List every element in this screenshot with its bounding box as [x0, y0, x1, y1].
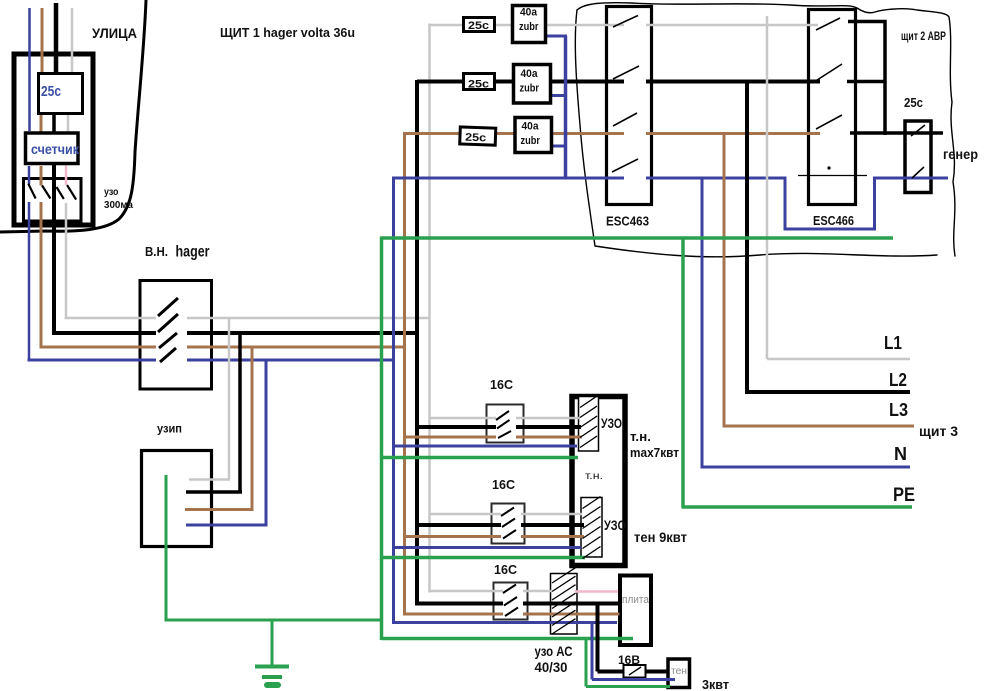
wire brown row2 — [405, 535, 585, 538]
wire blue row1 — [394, 445, 578, 448]
contact blade 16B — [629, 667, 641, 675]
wire brown bus vertical — [403, 132, 406, 616]
wire gray bus vertical — [428, 24, 431, 593]
svg-text:16В: 16В — [618, 653, 640, 667]
wire street pink segment — [65, 164, 68, 185]
breaker 25c top-1 box — [464, 18, 495, 32]
breaker 16C-1 box — [487, 405, 524, 443]
wire street boundary curve — [0, 0, 146, 232]
svg-text:16С: 16С — [490, 377, 514, 392]
wire PE green takeoff — [682, 238, 913, 507]
meter schetchik box — [26, 133, 79, 164]
wire black drop to 16B — [598, 604, 625, 672]
fuse 40a zubr 1 box — [513, 6, 546, 43]
svg-text:40/30: 40/30 — [535, 660, 568, 675]
wire black row3 — [417, 602, 620, 606]
wire black row VN — [52, 331, 419, 335]
wire gray row VN — [65, 317, 431, 320]
wire green inside UZIP — [165, 475, 168, 622]
wire green row3 — [382, 637, 634, 641]
wire brown row3 — [405, 613, 620, 616]
svg-text:плита: плита — [622, 594, 650, 606]
wire black 16B to ten — [645, 670, 669, 674]
svg-text:УЛИЦА: УЛИЦА — [92, 25, 137, 41]
wire thin black line at ESC466 bottom — [798, 175, 867, 177]
svg-text:счетчик: счетчик — [31, 142, 79, 157]
wire green row1 — [382, 456, 579, 460]
wire green UZIP to bus — [166, 619, 383, 622]
wire black bus vertical — [415, 80, 419, 606]
wire gray row3 — [430, 590, 553, 593]
svg-text:тен 9квт: тен 9квт — [634, 530, 687, 545]
contact blades VN hager — [158, 298, 178, 362]
load box ten 3kvt — [668, 659, 690, 688]
svg-text:УЗО: УЗО — [604, 518, 626, 533]
breaker 25c street box — [39, 74, 83, 114]
wire green PE bus vertical — [380, 237, 384, 641]
wire N blue takeoff — [701, 178, 911, 467]
svg-text:N: N — [894, 444, 907, 464]
wire gray drop to UZIP — [189, 318, 230, 480]
contact blades 16C-1 — [496, 411, 511, 438]
wire green ground drop — [271, 620, 274, 665]
wire green row2 — [382, 556, 586, 560]
breaker 25c generator box — [905, 121, 931, 193]
svg-text:3квт: 3квт — [702, 678, 729, 691]
wire L3 brown takeoff — [723, 134, 915, 427]
svg-text:узо АС: узо АС — [535, 644, 573, 659]
wire street black main drop — [54, 3, 56, 335]
wire brown row1 — [405, 436, 583, 439]
svg-text:16С: 16С — [492, 477, 516, 492]
wire black drop to UZIP — [186, 333, 242, 492]
wire black right bus vertical — [883, 20, 887, 135]
wire blue N bus vertical — [392, 177, 395, 625]
svg-text:узип: узип — [157, 422, 182, 436]
contact blades 16C-3 — [503, 585, 518, 617]
breaker blades uzo 300ma — [28, 184, 76, 200]
contact blades 25c generator — [911, 125, 925, 178]
svg-text:В.Н.: В.Н. — [145, 245, 168, 259]
wire blue drop to UZIP — [186, 360, 268, 525]
svg-text:zubr: zubr — [519, 21, 539, 33]
junction dot — [827, 166, 830, 169]
svg-text:25с: 25с — [468, 20, 489, 32]
wire gray top feed — [430, 24, 819, 27]
load box t.n. max7kvt / ten 9kvt — [572, 397, 625, 566]
surge protector UZIP box — [142, 451, 212, 547]
svg-text:ESC463: ESC463 — [606, 214, 649, 229]
wire shchit-2 boundary blob — [575, 3, 955, 257]
svg-text:ЩИТ 1 hager volta 36u: ЩИТ 1 hager volta 36u — [220, 25, 355, 40]
svg-text:генер: генер — [943, 146, 978, 162]
svg-text:max7квт: max7квт — [630, 445, 679, 460]
wire L1 gray takeoff — [767, 16, 910, 359]
svg-text:hager: hager — [176, 244, 210, 261]
wire black row2 — [417, 523, 584, 527]
contact blades ESC463 — [612, 16, 639, 173]
hatching uzo AC — [552, 568, 576, 634]
svg-text:ESC466: ESC466 — [813, 213, 854, 228]
switch VN hager box — [140, 281, 212, 390]
RCD UZO2 hatched body — [581, 498, 602, 558]
svg-text:щит 3: щит 3 — [919, 424, 959, 439]
wire street gray lower drop — [65, 203, 68, 319]
contactor ESC466 box — [809, 10, 856, 205]
svg-text:25с: 25с — [41, 84, 61, 100]
wire gray row2 — [430, 513, 583, 516]
svg-text:40a: 40a — [520, 7, 538, 19]
street panel enclosure box — [14, 54, 93, 225]
svg-text:25с: 25с — [468, 79, 489, 91]
svg-text:L3: L3 — [889, 400, 908, 420]
wire blue row3 — [394, 621, 618, 624]
label 25c top3 — [465, 132, 486, 145]
svg-text:L1: L1 — [884, 333, 902, 353]
RCD uzo 300ma street box — [24, 179, 82, 222]
svg-text:PE: PE — [893, 485, 915, 506]
contactor ESC463 box — [607, 7, 652, 205]
svg-text:40a: 40a — [522, 121, 540, 133]
ground symbol — [255, 667, 289, 686]
breaker 25c top-3 box — [460, 127, 496, 145]
load box plita — [620, 576, 651, 646]
hatching UZO2 — [583, 497, 601, 559]
contact blades 16C-2 — [501, 508, 516, 539]
svg-text:zubr: zubr — [520, 83, 540, 95]
svg-text:16С: 16С — [494, 562, 518, 577]
contact blades ESC466 — [814, 18, 842, 129]
wire blue collector from 40a breakers — [545, 36, 567, 178]
fuse 40a zubr 2 box — [514, 65, 551, 104]
breaker 16C-3 box — [494, 583, 528, 620]
wire street blue phase drop — [28, 8, 31, 362]
svg-text:25с: 25с — [465, 132, 486, 145]
wire black top feed — [417, 80, 887, 84]
svg-text:т.н.: т.н. — [630, 429, 651, 444]
RCD uzo AC 40/30 hatched body — [551, 574, 578, 635]
breaker 16C-2 box — [492, 504, 525, 544]
breaker 16B box — [624, 665, 646, 678]
wire black generator feed — [850, 131, 943, 135]
wire gray row1 — [430, 417, 580, 420]
svg-text:zubr: zubr — [521, 135, 541, 147]
svg-text:УЗО: УЗО — [601, 416, 622, 431]
RCD UZO1 hatched body — [579, 397, 599, 452]
svg-text:т.н.: т.н. — [585, 470, 603, 482]
wire blue row2 — [394, 546, 582, 549]
wire blue U-loop under ESC466 — [785, 178, 948, 231]
wire green PE horizontal top — [382, 236, 894, 240]
svg-text:L2: L2 — [889, 370, 907, 390]
wire black row1 — [417, 425, 581, 429]
wire L2 black takeoff — [745, 82, 910, 393]
svg-text:40a: 40a — [521, 68, 539, 80]
svg-text:300ма: 300ма — [104, 199, 133, 211]
svg-text:25с: 25с — [904, 96, 923, 110]
wire pink row3 segment — [575, 590, 618, 593]
svg-text:узо: узо — [104, 186, 119, 198]
wire street brown drop — [41, 8, 42, 349]
hatching UZO1 — [580, 396, 597, 447]
wire blue row VN — [28, 359, 395, 362]
wire brown top feed — [405, 132, 821, 135]
wire brown drop to UZIP — [185, 347, 254, 510]
wire green drop bottom — [586, 639, 670, 687]
wire brown row VN — [40, 346, 407, 349]
wire blue drop bottom — [592, 623, 675, 680]
fuse 40a zubr 3 box — [515, 118, 552, 153]
wire street gray drop — [68, 8, 72, 132]
svg-text:тен: тен — [671, 666, 687, 677]
breaker 25c top-2 box — [464, 74, 495, 90]
svg-text:щит 2 АВР: щит 2 АВР — [901, 31, 946, 43]
wire black right bus top — [848, 20, 887, 24]
wire blue main horizontal — [394, 177, 787, 180]
